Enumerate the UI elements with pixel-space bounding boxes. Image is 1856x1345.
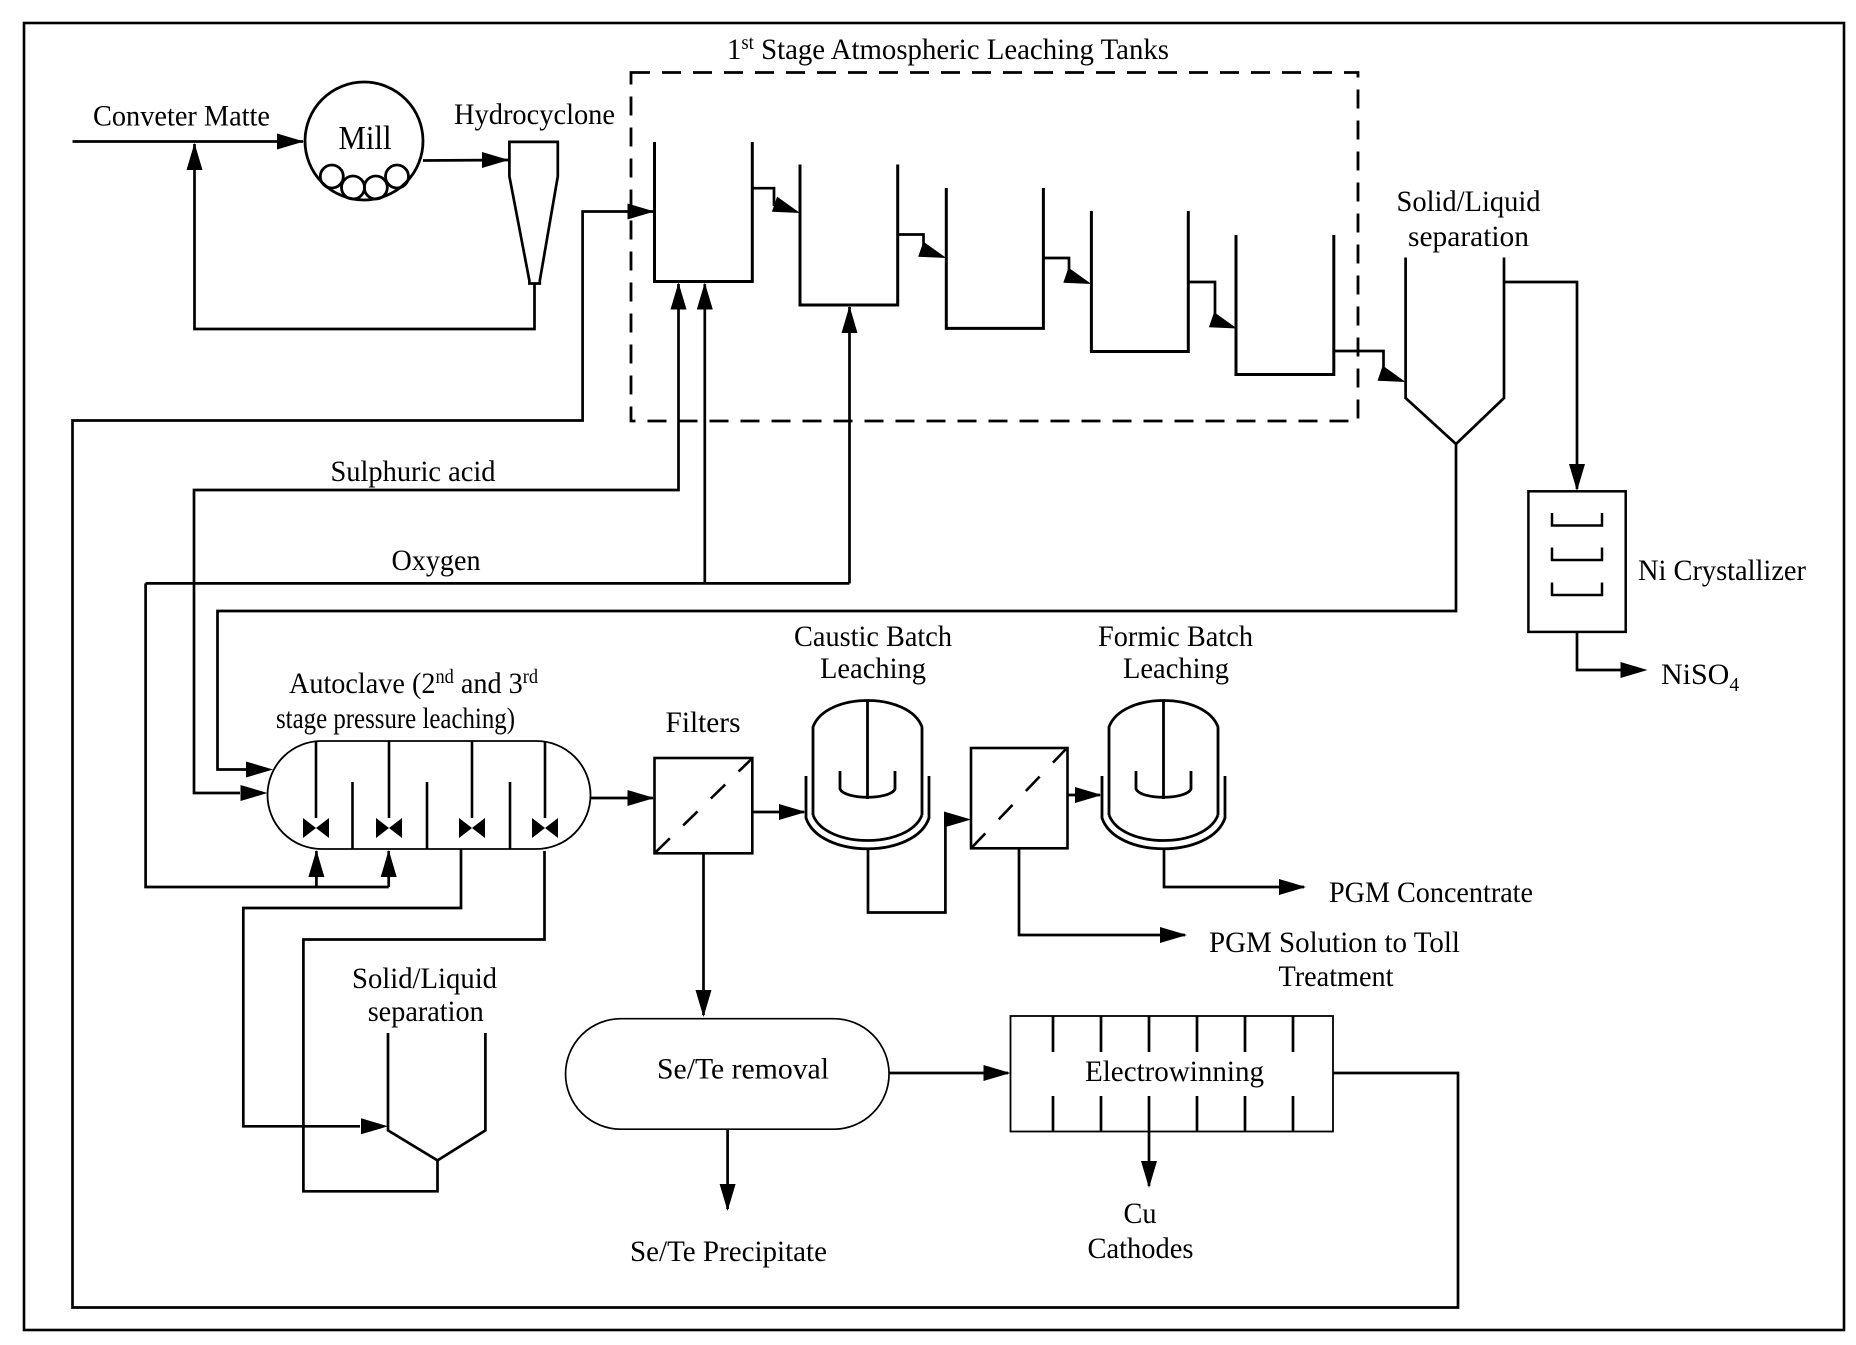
svg-text:Autoclave (2nd and 3rd: Autoclave (2nd and 3rd [289,667,538,700]
svg-text:1st Stage Atmospheric Leaching: 1st Stage Atmospheric Leaching Tanks [727,33,1169,66]
svg-text:Leaching: Leaching [1123,652,1229,685]
svg-text:Se/Te Precipitate: Se/Te Precipitate [630,1235,827,1268]
svg-text:Solid/Liquid: Solid/Liquid [352,962,497,995]
svg-text:Leaching: Leaching [820,652,926,685]
svg-text:separation: separation [368,995,484,1028]
svg-text:Ni Crystallizer: Ni Crystallizer [1638,554,1806,587]
svg-text:Caustic Batch: Caustic Batch [794,620,952,653]
svg-text:Cathodes: Cathodes [1088,1232,1194,1265]
svg-text:Se/Te removal: Se/Te removal [657,1053,829,1086]
svg-text:Conveter Matte: Conveter Matte [93,100,270,133]
svg-text:Electrowinning: Electrowinning [1085,1055,1264,1088]
svg-text:PGM Concentrate: PGM Concentrate [1329,876,1533,909]
svg-text:Sulphuric acid: Sulphuric acid [331,455,496,488]
svg-text:PGM Solution to Toll: PGM Solution to Toll [1209,926,1460,959]
svg-text:Cu: Cu [1124,1197,1157,1230]
svg-text:separation: separation [1408,220,1529,253]
svg-text:Treatment: Treatment [1279,960,1395,993]
svg-text:NiSO4: NiSO4 [1661,658,1739,696]
svg-text:Formic Batch: Formic Batch [1098,620,1253,653]
svg-text:Hydrocyclone: Hydrocyclone [454,98,615,131]
svg-text:Mill: Mill [339,120,392,157]
svg-text:stage pressure leaching): stage pressure leaching) [276,702,515,735]
svg-text:Filters: Filters [666,706,741,739]
svg-text:Oxygen: Oxygen [392,544,481,577]
svg-text:Solid/Liquid: Solid/Liquid [1397,185,1541,218]
